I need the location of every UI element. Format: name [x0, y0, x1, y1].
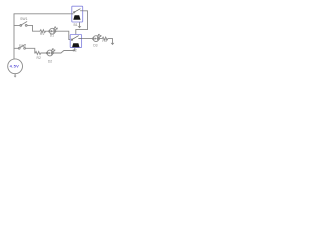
wire SW2 branch: [14, 47, 19, 49]
wire D2 jog up to B2 bottom: [54, 48, 75, 53]
wire B2 right exit to D3: [82, 38, 93, 40]
svg-text:SW1: SW1: [20, 17, 27, 21]
svg-text:D3: D3: [93, 44, 97, 48]
wire SW1 to row B: [27, 25, 40, 31]
svg-text:D1: D1: [50, 33, 54, 37]
svg-text:R1: R1: [40, 32, 44, 36]
svg-text:B2: B2: [73, 49, 77, 53]
wire B1 right exit down to B2 top: [76, 11, 88, 35]
svg-text:SW2: SW2: [19, 44, 26, 48]
svg-text:R2: R2: [37, 56, 41, 60]
switch SW2: [18, 45, 25, 50]
resistor R3: [102, 37, 108, 40]
ground arrow under B1: [78, 22, 82, 28]
wire R2 to D2: [41, 52, 47, 54]
push switch B2 box: [70, 35, 81, 48]
wire battery bottom stub: [14, 74, 16, 76]
svg-text:4.5V: 4.5V: [10, 63, 19, 68]
wire D1 to push switch B2 left: [56, 31, 70, 39]
ground arrow right: [111, 43, 115, 45]
svg-text:B1: B1: [74, 23, 78, 27]
labels: [19, 17, 107, 63]
LED D3: [92, 34, 101, 41]
LED D2: [46, 49, 55, 56]
LED D1: [49, 27, 58, 34]
wire SW2 to row C: [25, 48, 35, 53]
wire D3 to R3: [100, 38, 103, 40]
wire SW1 branch: [14, 24, 20, 26]
svg-text:R3: R3: [102, 39, 106, 43]
ground arrow under battery: [14, 76, 17, 78]
switch SW1: [20, 22, 27, 27]
resistor R1: [40, 30, 46, 33]
wire top run to push switch B1: [14, 13, 72, 15]
push switch B1 box: [72, 6, 83, 22]
wire R3 to ground: [108, 39, 113, 43]
battery V1 circle: [8, 59, 23, 74]
resistor R2: [35, 52, 41, 55]
wire R1 to D1: [46, 30, 50, 32]
wire left bus: [13, 14, 15, 59]
svg-text:D2: D2: [48, 60, 52, 64]
